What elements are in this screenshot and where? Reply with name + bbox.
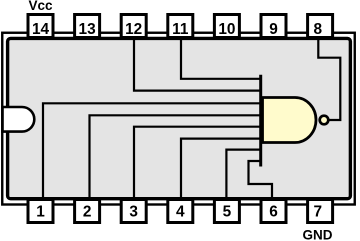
svg-text:5: 5: [223, 203, 232, 220]
wire pin 3 to NAND input: [134, 127, 261, 200]
pin 6: [261, 200, 286, 223]
svg-text:14: 14: [32, 21, 50, 38]
svg-text:3: 3: [129, 203, 138, 220]
wire NAND output to pin 8: [318, 38, 340, 121]
pin 1: [28, 200, 53, 223]
svg-text:11: 11: [172, 21, 189, 38]
pin 11: [168, 15, 193, 38]
svg-text:9: 9: [269, 21, 278, 38]
pin 13: [75, 15, 100, 38]
pin 10: [214, 15, 239, 38]
pin 3: [121, 200, 146, 223]
pin 12: [121, 15, 146, 38]
wire pin 11 to NAND input: [181, 38, 261, 79]
NAND output inversion bubble: [320, 116, 329, 125]
pin 9: [261, 15, 286, 38]
pin 5: [214, 200, 239, 223]
IC package body: [8, 38, 351, 198]
svg-text:1: 1: [36, 203, 45, 220]
pin 8: [308, 15, 333, 38]
pin 7: [308, 200, 333, 223]
wire pin 6 to NAND input: [249, 161, 273, 200]
wire pin 1 to NAND input: [43, 103, 261, 199]
8-input NAND gate U1 body: [263, 98, 317, 143]
svg-text:4: 4: [176, 203, 185, 220]
NAND input bar: [259, 75, 262, 167]
svg-text:Vcc: Vcc: [29, 0, 54, 13]
wire pin 2 to NAND input: [90, 115, 261, 199]
svg-text:6: 6: [269, 203, 278, 220]
svg-text:2: 2: [83, 203, 92, 220]
pin 1 notch: [3, 107, 35, 132]
svg-text:12: 12: [125, 21, 142, 38]
wire pin 12 to NAND input: [134, 38, 261, 91]
svg-text:8: 8: [314, 21, 323, 38]
wire pin 4 to NAND input: [181, 139, 261, 200]
svg-text:7: 7: [314, 203, 323, 220]
svg-text:GND: GND: [303, 228, 333, 241]
svg-text:13: 13: [79, 21, 96, 38]
wire pin 5 to NAND input: [226, 150, 260, 200]
pin 14: [28, 15, 53, 38]
pin 2: [75, 200, 100, 223]
pin 4: [168, 200, 193, 223]
svg-text:10: 10: [218, 21, 235, 38]
